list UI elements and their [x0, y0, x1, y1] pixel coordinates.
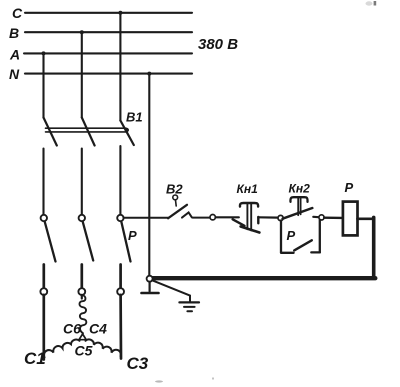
relay self-hold contact P branch [281, 220, 320, 253]
contactor P contact pole1 [41, 215, 56, 262]
label 380V [198, 36, 238, 53]
wire to winding C1 [42, 295, 45, 360]
contactor P contact pole3 [117, 215, 130, 262]
wire neutral drop from N [148, 74, 150, 276]
motor terminal circle C5 feed [78, 288, 85, 295]
wire to winding middle [81, 295, 83, 299]
node junction on B [80, 30, 84, 34]
wire pole3 mid [119, 146, 121, 215]
wire node3 to coil [324, 216, 342, 219]
wire pole2 drop from B [81, 32, 83, 117]
wire pole1 lower [42, 265, 45, 289]
wire phase bus B [25, 31, 192, 33]
label B1 [126, 110, 143, 125]
wire pole1 drop from A [42, 53, 44, 117]
node 3 circle [319, 215, 324, 220]
svg-text:Кн2: Кн2 [289, 182, 311, 196]
label C6 [63, 321, 81, 337]
wire pole3 lower [119, 265, 122, 289]
svg-text:С5: С5 [75, 343, 93, 359]
node junction on A [42, 51, 46, 55]
label A [9, 47, 20, 63]
wire coil to right [358, 217, 374, 220]
wire B2 to node1 [193, 217, 211, 219]
contactor P contact pole2 [79, 215, 94, 261]
motor winding left (C1) [44, 340, 80, 358]
svg-text:С1: С1 [24, 349, 46, 368]
svg-text:Кн1: Кн1 [237, 182, 259, 196]
wire phase bus A [24, 52, 192, 54]
svg-text:380 В: 380 В [198, 36, 238, 53]
wire pole2 lower [80, 265, 83, 289]
label C1 [24, 349, 46, 368]
motor winding right (C3) [86, 339, 121, 356]
wire bottom return [152, 276, 375, 280]
wire node1 to Kn1 [216, 216, 239, 218]
wire control tap [123, 217, 168, 219]
svg-text:Р: Р [128, 228, 137, 243]
label B [9, 25, 19, 41]
svg-text:В2: В2 [166, 182, 183, 197]
svg-text:С6: С6 [63, 321, 81, 337]
label N [9, 66, 20, 82]
label C [12, 5, 23, 21]
svg-text:Р: Р [345, 180, 354, 195]
motor winding middle coil [79, 295, 86, 333]
svg-text:C: C [12, 5, 23, 21]
ground earth symbol [179, 302, 199, 311]
ground small earth bar [142, 292, 159, 295]
wire node to small earth [149, 282, 151, 291]
switch B1 blade pole3 [120, 121, 133, 146]
relay coil P [343, 202, 358, 236]
svg-text:С4: С4 [89, 321, 107, 337]
label C3 [127, 354, 149, 373]
motor star point marker [79, 334, 86, 340]
node 2 circle [278, 215, 283, 220]
svg-text:Р: Р [287, 228, 296, 243]
label P coil [345, 180, 354, 195]
wire pole1 mid [42, 149, 44, 216]
label C5 [75, 343, 93, 359]
wire neutral bus N [25, 73, 192, 75]
node 1 circle [210, 215, 215, 220]
wire to winding C3 [119, 295, 122, 359]
node neutral-ground circle [147, 276, 153, 282]
scan artifact top right [366, 1, 377, 6]
motor terminal circle C1 feed [40, 288, 47, 295]
switch B1 blade pole1 [44, 118, 57, 146]
label B2 [166, 182, 183, 197]
label Kn1 [237, 182, 259, 196]
label P self-hold [287, 228, 296, 243]
label C4 [89, 321, 107, 337]
node junction on C [118, 11, 122, 15]
label P contactor contacts [128, 228, 137, 243]
switch B2 [168, 195, 192, 218]
wire pole2 mid [81, 149, 83, 216]
label Kn2 [289, 182, 311, 196]
wire diagonal to earth [152, 280, 190, 301]
svg-text:A: A [9, 47, 20, 63]
svg-text:B: B [9, 25, 19, 41]
wire Kn1 to node2 [258, 216, 278, 219]
node junction on N [147, 72, 151, 76]
pushbutton Kn1 (stop, NC) [233, 203, 260, 233]
svg-text:N: N [9, 66, 20, 82]
svg-text:С3: С3 [127, 354, 149, 373]
switch B1 blade pole2 [82, 118, 95, 146]
wire pole3 drop from C [119, 13, 121, 121]
switch B1 linkage bar [46, 128, 130, 132]
wire phase bus C [25, 12, 192, 14]
svg-text:В1: В1 [126, 110, 143, 125]
motor terminal circle C3 feed [117, 288, 124, 295]
wire right vertical return [372, 217, 376, 278]
pushbutton Kn2 (start, NO) [283, 197, 319, 219]
scan artifact bottom [155, 378, 214, 383]
